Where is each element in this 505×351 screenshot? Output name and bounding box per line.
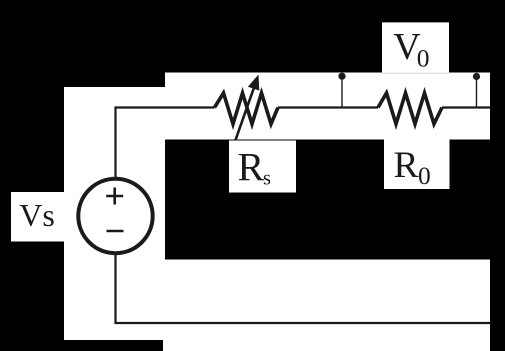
svg-text:R: R bbox=[394, 145, 419, 186]
svg-text:0: 0 bbox=[418, 161, 431, 190]
svg-text:R: R bbox=[238, 145, 265, 190]
svg-text:s: s bbox=[263, 168, 271, 190]
svg-text:Vs: Vs bbox=[19, 197, 55, 233]
svg-text:0: 0 bbox=[417, 44, 430, 73]
